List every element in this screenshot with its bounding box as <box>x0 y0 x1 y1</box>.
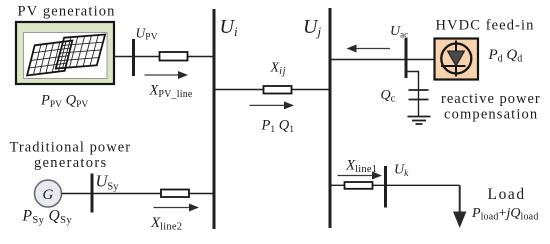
ground <box>408 117 431 125</box>
label P_d Q_d <box>488 47 523 65</box>
svg-text:reactive power: reactive power <box>441 91 541 107</box>
label Q_c <box>381 88 396 104</box>
label P1 Q1 <box>261 118 295 136</box>
bus U_k <box>384 166 387 208</box>
svg-text:Xline2: Xline2 <box>150 215 182 233</box>
capacitor Qc <box>409 90 429 117</box>
wire Ui to Uj <box>214 89 330 91</box>
label U_PV <box>136 25 158 42</box>
svg-text:HVDC feed-in: HVDC feed-in <box>436 17 535 33</box>
wire G to bus U_Sy and to Ui <box>62 193 215 195</box>
svg-text:Traditional power: Traditional power <box>10 140 132 156</box>
wire Uj to load corner <box>330 184 460 186</box>
svg-text:USy: USy <box>96 172 120 193</box>
bus U_PV <box>132 39 135 76</box>
svg-text:PPV QPV: PPV QPV <box>40 93 88 111</box>
bus U_Sy <box>91 174 94 213</box>
svg-text:compensation: compensation <box>444 107 538 123</box>
svg-text:generators: generators <box>34 155 107 171</box>
svg-text:PV generation: PV generation <box>18 4 116 20</box>
svg-text:UPV: UPV <box>136 25 158 42</box>
svg-text:Uj: Uj <box>303 16 321 39</box>
bus U_j <box>329 8 332 228</box>
label U_k <box>394 163 409 179</box>
label P_Sy Q_Sy <box>22 208 73 227</box>
reactance X_line2 box <box>161 190 189 198</box>
Load label <box>488 186 526 203</box>
svg-text:Pload+jQload: Pload+jQload <box>471 206 539 222</box>
PV panel left <box>27 41 72 76</box>
svg-text:Xij: Xij <box>270 61 287 78</box>
bus U_ac <box>405 38 408 78</box>
arrow X_line1 flow <box>338 172 383 180</box>
label P_load + jQ_load <box>471 206 539 222</box>
svg-text:Uac: Uac <box>390 24 408 39</box>
svg-text:P1 Q1: P1 Q1 <box>261 118 295 136</box>
label X_line2 <box>150 215 182 233</box>
label U_Sy <box>96 172 120 193</box>
svg-text:G: G <box>43 187 54 203</box>
wire PV box to bus Ui <box>114 56 213 58</box>
HVDC feed-in title <box>436 17 535 33</box>
reactive power compensation label <box>441 91 541 123</box>
PV panel right <box>56 35 105 69</box>
svg-text:PSy QSy: PSy QSy <box>22 208 73 227</box>
arrow P1 Q1 flow <box>250 101 295 109</box>
label X_ij <box>270 61 287 78</box>
label U_ac <box>390 24 408 39</box>
reactance X_line1 box <box>345 182 373 189</box>
svg-text:Load: Load <box>488 186 526 203</box>
arrow X_line2 flow <box>154 204 200 212</box>
label U_j <box>303 16 321 39</box>
Traditional power generators label <box>10 140 132 171</box>
PV generation box <box>16 22 114 84</box>
svg-text:Qc: Qc <box>381 88 396 104</box>
svg-text:Pd Qd: Pd Qd <box>488 47 523 65</box>
label X_PV_line <box>149 83 193 101</box>
reactance X_PV_line box <box>160 52 188 61</box>
arrow X_PV_line flow <box>145 71 189 79</box>
HVDC converter box <box>435 39 479 80</box>
svg-text:XPV_line: XPV_line <box>149 83 193 101</box>
svg-text:Ui: Ui <box>220 16 238 39</box>
arrow HVDC feed direction (left) <box>347 45 391 53</box>
wire Uj to HVDC box <box>330 59 435 61</box>
label P_PV Q_PV <box>40 93 88 111</box>
generator G <box>35 180 62 207</box>
reactance X_ij box <box>264 86 292 94</box>
svg-text:Uk: Uk <box>394 163 409 179</box>
wire jog bus to capacitor <box>406 72 419 91</box>
label X_line1 <box>345 157 377 175</box>
svg-text:Xline1: Xline1 <box>345 157 377 175</box>
bus U_i <box>213 9 216 229</box>
label U_i <box>220 16 238 39</box>
PV generation title <box>18 4 116 20</box>
load drop wire and arrow <box>453 185 466 228</box>
